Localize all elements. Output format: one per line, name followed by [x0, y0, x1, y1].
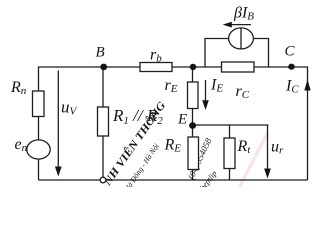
svg-text:R1 // R2: R1 // R2: [112, 106, 163, 127]
beta-I_B arrow above source: [223, 22, 251, 28]
wire r_b to node: [172, 66, 222, 68]
svg-text:rC: rC: [236, 83, 250, 101]
wire e_n to bottom rail: [38, 159, 40, 180]
wire B down to R1//R2: [102, 67, 104, 107]
node dot at r_b / r_C / r_E junction: [190, 64, 197, 70]
current source beta-I_B circle: [229, 28, 254, 49]
svg-text:βIB: βIB: [233, 5, 254, 23]
node E dot: [189, 122, 196, 129]
resistor r_E: [188, 82, 199, 109]
watermark pink streak: [239, 132, 268, 188]
svg-text:B: B: [96, 45, 105, 61]
source e_n: [27, 140, 50, 159]
wire r_E to node E: [192, 109, 194, 126]
svg-text:E: E: [177, 112, 187, 128]
resistor R_t: [224, 138, 235, 169]
svg-text:C: C: [285, 44, 296, 60]
svg-text:IC: IC: [285, 78, 299, 96]
top wire left: corner to r_b: [39, 67, 141, 91]
node C dot: [288, 64, 295, 70]
I_C current arrow on right edge: [304, 80, 310, 91]
wire R_n to e_n: [38, 117, 40, 141]
bottom rail: [39, 179, 308, 181]
svg-text:Rt: Rt: [237, 138, 252, 156]
watermark blue text: [100, 99, 219, 195]
svg-text:ur: ur: [271, 139, 284, 157]
svg-text:Rn: Rn: [10, 79, 27, 97]
svg-text:rE: rE: [165, 77, 178, 95]
resistor R1//R2: [98, 107, 109, 136]
resistor r_b: [140, 63, 172, 72]
u_V voltage arrow: [55, 71, 62, 177]
svg-text:IE: IE: [210, 77, 223, 95]
wire node to r_E: [192, 67, 194, 82]
wire down to R_t: [229, 125, 231, 138]
svg-text:uV: uV: [61, 98, 78, 118]
beta-I_B branch left vertical wire: [205, 39, 229, 68]
node B dot: [100, 64, 107, 71]
open terminal circle at bottom of R1//R2: [100, 177, 106, 183]
svg-text:rb: rb: [150, 47, 162, 65]
wire E down to R_E: [192, 126, 194, 138]
beta-I_B branch right vertical wire: [253, 39, 268, 68]
current source vertical bar: [240, 28, 242, 49]
wire R_t to bottom rail: [229, 169, 231, 181]
svg-text:RE: RE: [164, 137, 182, 155]
resistor R_E: [188, 137, 199, 170]
u_r voltage arrow: [264, 125, 271, 179]
wire r_C to top-right corner, down right edge: [254, 67, 308, 180]
I_E current arrow: [202, 80, 209, 110]
wire R1//R2 to bottom terminal: [102, 136, 104, 177]
wire R_E to bottom rail: [192, 170, 194, 181]
wire E to u_r branch: [193, 124, 269, 126]
svg-text:en: en: [15, 136, 28, 154]
resistor R_n: [33, 91, 45, 117]
resistor r_C: [222, 62, 255, 72]
